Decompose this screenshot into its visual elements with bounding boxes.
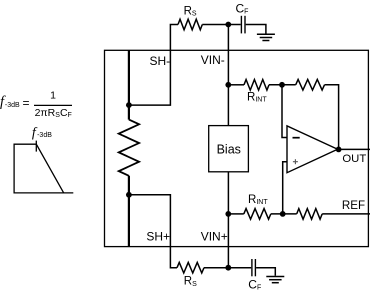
svg-text:REF: REF [342,199,365,212]
svg-text:CF: CF [248,278,261,292]
svg-text:VIN+: VIN+ [201,230,228,244]
svg-text:-3dB: -3dB [5,102,20,109]
svg-text:RS: RS [184,276,197,288]
svg-text:2πRSCF: 2πRSCF [35,107,72,119]
svg-text:SH-: SH- [150,54,171,68]
svg-text:Bias: Bias [217,142,241,156]
svg-text:RINT: RINT [248,194,268,206]
svg-text:VIN-: VIN- [201,53,225,67]
svg-text:-3dB: -3dB [37,132,52,139]
svg-text:1: 1 [50,89,56,101]
svg-text:OUT: OUT [342,153,366,165]
svg-text:SH+: SH+ [146,230,170,244]
svg-text:RINT: RINT [247,91,267,103]
svg-text:RS: RS [184,5,197,17]
svg-text:=: = [23,96,30,110]
svg-text:CF: CF [236,2,249,16]
